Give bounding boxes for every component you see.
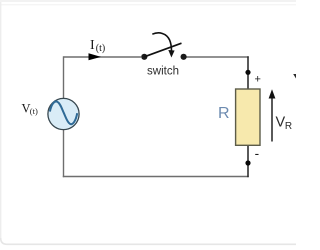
svg-text:R: R	[285, 121, 292, 132]
wire left vertical lower	[63, 130, 65, 178]
svg-text:+: +	[255, 74, 261, 86]
svg-text:I: I	[90, 38, 95, 53]
svg-text:R: R	[218, 105, 230, 122]
wire top-right horizontal segment	[187, 56, 249, 58]
VR arrow line	[271, 97, 273, 142]
resistor R body	[236, 89, 260, 145]
switch arc arrowhead	[168, 50, 174, 58]
node dot (resistor bottom junction)	[245, 160, 250, 165]
wire right vertical upper (to resistor top)	[247, 56, 249, 89]
switch left contact dot	[141, 54, 147, 60]
sine wave inside source	[50, 101, 77, 124]
card left border	[0, 2, 1, 240]
card top border band	[0, 0, 296, 2]
voltage source V(t) circle	[48, 98, 79, 129]
switch right contact dot	[181, 54, 187, 60]
cropped glyph at right edge	[293, 74, 296, 79]
card bottom border	[1, 238, 296, 244]
wire top-left horizontal segment	[64, 56, 142, 58]
switch closing arc	[152, 33, 171, 51]
svg-text:(t): (t)	[96, 43, 105, 54]
wire right vertical lower (resistor bottom to bottom wire)	[247, 145, 249, 177]
current arrow on top wire	[89, 53, 102, 60]
svg-text:switch: switch	[147, 66, 179, 78]
node dot (resistor top junction)	[245, 70, 250, 75]
VR arrowhead	[269, 89, 276, 98]
svg-text:-: -	[255, 146, 260, 161]
wire bottom horizontal	[63, 176, 249, 178]
svg-text:(t): (t)	[30, 106, 38, 116]
switch blade	[144, 43, 181, 57]
wire left vertical upper	[63, 56, 65, 99]
